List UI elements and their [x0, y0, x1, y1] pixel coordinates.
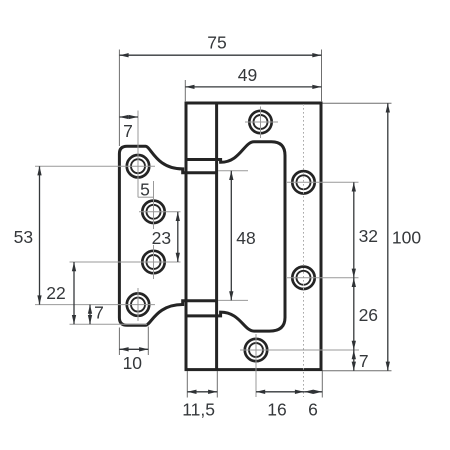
hole L4 [127, 293, 149, 315]
crosshair R4 vertical / ext 16 [255, 334, 257, 397]
crosshair L4 vertical [137, 288, 139, 321]
dim 6 [304, 391, 322, 393]
svg-text:7: 7 [94, 303, 104, 323]
dim 7 top-left [119, 116, 138, 118]
svg-text:48: 48 [236, 228, 255, 248]
ext 48 top [218, 170, 248, 172]
svg-text:53: 53 [14, 227, 33, 247]
crosshair L1 vertical [137, 111, 139, 198]
dim 7 bottom-right [353, 350, 355, 371]
ext 22 bottom [70, 323, 148, 325]
centerline dotted [303, 104, 305, 397]
svg-text:16: 16 [267, 399, 286, 419]
ext 5 bracket [138, 196, 154, 198]
dim 22 [73, 262, 75, 324]
ext 75/49 right [321, 50, 323, 103]
ext 11,5 left [186, 371, 188, 398]
ext 11,5 right [216, 371, 218, 398]
dim 32 [353, 182, 355, 277]
ext 26 bottom / crosshair R4 [240, 349, 359, 351]
ext 53 top / crosshair L1 [35, 165, 155, 167]
dim 11,5 [187, 391, 217, 393]
dim 49 [185, 86, 321, 88]
svg-text:7: 7 [123, 121, 133, 141]
hole R3 [292, 267, 314, 289]
crosshair L2 horizontal [139, 211, 181, 213]
ext 10 left [118, 328, 120, 356]
dim 26 [353, 278, 355, 350]
svg-text:22: 22 [46, 283, 65, 303]
ext 6 right [321, 371, 323, 398]
svg-text:7: 7 [359, 351, 369, 371]
dim 100 [387, 103, 389, 371]
crosshair L3 vertical [153, 245, 155, 279]
ext 48 bottom [218, 299, 248, 301]
svg-text:11,5: 11,5 [182, 400, 215, 420]
dim 16 [256, 391, 304, 393]
right leaf outline [186, 103, 321, 370]
left leaf outline [119, 146, 216, 325]
hole L1 [127, 155, 149, 177]
dim 75 [119, 54, 321, 56]
ext 75 left [118, 50, 120, 147]
ext 32 bottom / crosshair R3 [286, 277, 359, 279]
hole L3 [142, 251, 164, 273]
svg-text:100: 100 [392, 227, 421, 247]
hole R1 [249, 111, 271, 133]
svg-text:32: 32 [359, 226, 378, 246]
svg-text:23: 23 [152, 228, 171, 248]
ext 100 bottom [323, 370, 392, 372]
ext 32 top / crosshair R2 [286, 181, 359, 183]
dim 23 [177, 212, 179, 262]
dim 7 bottom-left [89, 305, 91, 325]
svg-text:26: 26 [359, 305, 378, 325]
hole R4 [245, 339, 267, 361]
svg-text:75: 75 [207, 32, 226, 52]
svg-text:49: 49 [238, 65, 257, 85]
ext 22 top / crosshair L3 [70, 261, 181, 263]
hole R2 [292, 171, 314, 193]
crosshair R1 [245, 121, 278, 123]
dim 10 [119, 348, 148, 350]
cutout in right leaf [185, 142, 285, 331]
svg-text:5: 5 [140, 180, 150, 200]
svg-text:10: 10 [123, 353, 143, 373]
ext 53 bottom / crosshair L4 [35, 304, 155, 306]
dim 53 [39, 166, 41, 304]
dim 48 [230, 171, 232, 301]
svg-text:6: 6 [308, 399, 318, 419]
ext 10 right [147, 327, 149, 356]
crosshair L2 vertical [153, 181, 155, 229]
hole L2 [142, 201, 164, 223]
ext 100 top [323, 102, 392, 104]
knuckle line [215, 103, 218, 370]
ext 49 left [184, 80, 186, 102]
